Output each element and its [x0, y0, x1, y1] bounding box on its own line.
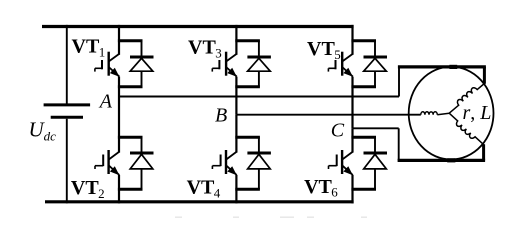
caption fragment (cropped text tops) — [175, 216, 367, 218]
wire phase A from node A to riser — [119, 96, 399, 98]
wire leg 1 emitter of VT2 to bottom rail — [118, 175, 120, 203]
transistor VT2 (IGBT) — [95, 150, 119, 175]
svg-text:C: C — [331, 120, 345, 142]
motor terminal mark bottom — [447, 158, 455, 162]
wire emitter stub from diode of VT6 — [351, 188, 376, 191]
svg-text:6: 6 — [331, 185, 338, 200]
svg-text:VT: VT — [187, 177, 215, 199]
wire collector stub to diode of VT2 — [118, 136, 143, 139]
wire leg 2 emitter of VT4 to bottom rail — [235, 175, 237, 203]
battery U_dc positive plate — [44, 103, 91, 106]
wire leg 2 emitter of VT3 down to node — [235, 77, 237, 115]
svg-text:A: A — [98, 91, 113, 113]
wire diode top lead VT6 — [374, 137, 376, 152]
battery U_dc negative plate — [51, 116, 83, 119]
wire leg 1 node down to VT2 collector — [118, 97, 120, 153]
wire diode bottom lead VT6 — [374, 169, 376, 189]
wire phase A riser up — [398, 67, 400, 97]
diode (freewheel) across VT5 — [364, 56, 388, 59]
wire leg 3 emitter of VT5 down to node — [351, 77, 353, 129]
wire phase C from node C to riser — [353, 127, 399, 129]
transistor VT6 (IGBT) — [329, 150, 353, 175]
wire diode anode-cathode risers / diode top lead VT3 — [258, 41, 260, 56]
wire emitter stub from diode of VT1 — [118, 85, 143, 88]
wire leg 3 collector (top rail to VT5) — [351, 25, 353, 55]
wire diode bottom lead VT4 — [258, 169, 260, 189]
wire diode anode-cathode risers / diode top lead VT1 — [141, 41, 143, 56]
wire leg 3 node down to VT6 collector — [351, 128, 353, 152]
wire positive DC bus (top rail) — [42, 25, 354, 28]
wire battery branch top — [66, 25, 68, 104]
wire collector stub to diode of VT6 — [351, 136, 376, 139]
wire leg 2 collector (top rail to VT3) — [235, 25, 237, 55]
transistor VT4 (IGBT) — [212, 150, 236, 175]
svg-text:VT: VT — [188, 37, 216, 59]
wire diode anode-cathode risers / diode top lead VT5 — [374, 41, 376, 56]
wire diode bottom lead VT5 — [374, 71, 376, 87]
wire emitter stub from diode of VT4 — [235, 188, 260, 191]
wire phase A top feed (thick) — [398, 65, 486, 68]
svg-text:B: B — [215, 104, 227, 126]
wire phase B from node B to motor — [236, 114, 420, 116]
diode (freewheel) across VT4 — [247, 152, 271, 155]
svg-text:r, L: r, L — [463, 102, 492, 124]
wire diode bottom lead VT3 — [258, 71, 260, 87]
transistor VT5 (IGBT) — [328, 52, 353, 77]
svg-text:2: 2 — [98, 186, 105, 201]
wire phase A drop to motor winding — [483, 67, 486, 84]
diode (freewheel) across VT1 — [130, 56, 154, 59]
svg-text:VT: VT — [71, 177, 99, 199]
svg-text:VT: VT — [72, 36, 100, 58]
wire battery branch bottom — [66, 119, 68, 204]
diode (freewheel) across VT2 — [130, 152, 154, 155]
wire leg 2 node down to VT4 collector — [235, 115, 237, 153]
wire emitter stub from diode of VT3 — [235, 85, 260, 88]
wire leg 1 emitter of VT1 down to node — [118, 77, 120, 97]
wire diode bottom lead VT2 — [141, 169, 143, 189]
svg-text:VT: VT — [304, 176, 332, 198]
svg-text:Udc: Udc — [29, 118, 57, 144]
wire collector stub to diode of VT3 — [235, 39, 260, 42]
wire negative DC bus (bottom rail) — [45, 200, 354, 203]
svg-text:4: 4 — [214, 185, 221, 200]
svg-text:VT: VT — [307, 38, 335, 60]
motor terminal mark top — [449, 65, 457, 69]
wire emitter stub from diode of VT5 — [351, 85, 376, 88]
winding phase B (left, horizontal coil) — [421, 112, 437, 115]
wire diode top lead VT2 — [141, 137, 143, 152]
wire phase C rise to motor winding — [482, 144, 485, 160]
winding phase A (upper-right coil) — [449, 83, 484, 113]
svg-text:5: 5 — [334, 47, 341, 62]
wire phase C riser down — [398, 128, 400, 160]
winding phase C (lower-right coil) — [449, 113, 483, 144]
motor stator circle — [409, 67, 494, 160]
wire collector stub to diode of VT4 — [235, 136, 260, 139]
svg-text:1: 1 — [99, 45, 106, 60]
diode (freewheel) across VT3 — [247, 56, 271, 59]
wire collector stub to diode of VT5 — [351, 39, 376, 42]
wire phase C bottom feed (thick) — [398, 159, 486, 162]
wire emitter stub from diode of VT2 — [118, 188, 143, 191]
wire leg 3 emitter of VT6 to bottom rail — [351, 175, 353, 203]
diode (freewheel) across VT6 — [364, 152, 388, 155]
wire leg 1 collector (top rail to VT1) — [118, 25, 120, 55]
wire diode bottom lead VT1 — [141, 71, 143, 87]
wire collector stub to diode of VT1 — [118, 39, 143, 42]
transistor VT1 (IGBT) — [95, 52, 120, 77]
svg-text:3: 3 — [215, 46, 222, 61]
transistor VT3 (IGBT) — [212, 52, 237, 77]
wire diode top lead VT4 — [258, 137, 260, 152]
